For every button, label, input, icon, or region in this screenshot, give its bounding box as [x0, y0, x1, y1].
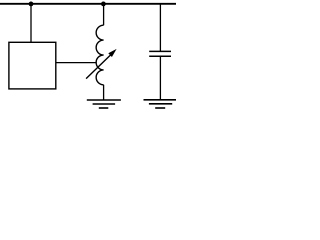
wire bus to coil [103, 4, 105, 25]
ground right [144, 100, 177, 108]
wire bus to capacitor [159, 4, 161, 51]
ground left [87, 100, 121, 108]
wire top bus [0, 3, 176, 5]
inductor L1 coil [96, 25, 103, 85]
node junction dot left [29, 2, 34, 7]
wire capacitor to ground [159, 56, 161, 99]
wire bus to box [30, 4, 32, 42]
variable inductor arrow [86, 49, 117, 79]
wire coil to ground [103, 85, 105, 100]
node junction dot middle [101, 2, 106, 7]
capacitor C1 [149, 51, 171, 56]
control unit box U1 [9, 42, 56, 89]
wire box to inductor [56, 62, 97, 64]
